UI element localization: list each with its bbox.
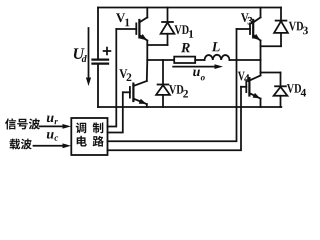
carrier input uc arrow	[34, 145, 64, 147]
wire node A to R	[147, 59, 174, 61]
transistor V3	[237, 8, 261, 61]
diode VD3	[274, 8, 288, 47]
label ur	[47, 116, 54, 123]
signal input ur arrow	[40, 125, 64, 127]
label 调制	[76, 122, 103, 133]
label V3	[241, 13, 249, 22]
wire gate V3 from box	[108, 29, 237, 141]
wire top rail	[98, 7, 281, 9]
label uo	[193, 70, 200, 77]
wire capacitor branch bottom	[97, 64, 99, 107]
label VD1	[174, 25, 181, 34]
wire R to L	[195, 59, 204, 61]
wire L to node B	[230, 59, 261, 61]
capacitor C	[93, 58, 109, 60]
wire bottom rail	[98, 106, 281, 108]
transistor V4	[241, 60, 261, 107]
transistor V1	[116, 8, 147, 61]
diode VD2	[156, 60, 170, 107]
uo output arrow	[173, 66, 216, 68]
wire capacitor branch top	[97, 8, 99, 60]
inductor L	[205, 55, 230, 60]
label L	[212, 42, 220, 51]
plus polarity mark	[104, 50, 111, 52]
wire gate V1 from box	[108, 29, 117, 127]
label V1	[116, 13, 125, 22]
wire gate V4 from box	[108, 87, 242, 151]
label Ud	[74, 48, 85, 59]
resistor R	[174, 57, 195, 63]
label V4	[238, 72, 245, 81]
label VD3	[289, 22, 296, 31]
diode VD4	[274, 73, 288, 108]
modulation circuit box	[71, 118, 107, 155]
wire VD4 cathode tap	[261, 72, 281, 74]
wire gate V2 from box	[108, 92, 123, 132]
label V2	[119, 69, 127, 78]
transistor V2	[123, 60, 147, 107]
wire VD1 anode to emitter	[147, 44, 167, 46]
Ud voltage arrow	[88, 28, 90, 79]
wire VD3 anode to V3 emitter	[261, 45, 282, 47]
label 电路	[77, 136, 104, 147]
label 载波	[10, 139, 32, 150]
label R	[181, 43, 190, 52]
label 信号波	[5, 118, 40, 129]
diode VD1	[161, 8, 175, 46]
label uc	[47, 132, 54, 139]
label VD4	[287, 84, 294, 93]
label VD2	[169, 85, 176, 94]
